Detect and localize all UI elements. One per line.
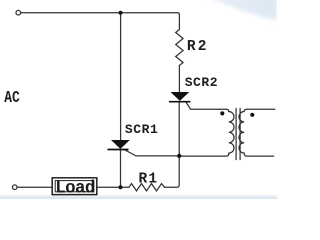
transformer T1 primary winding (left) (179, 112, 234, 157)
thyristor SCR2 cathode bar (169, 101, 191, 103)
wire: SCR1 gate to node B (124, 149, 179, 156)
wire: SCR1 anode drop from node A (120, 13, 122, 141)
thyristor SCR2 anode triangle (171, 92, 190, 101)
svg-text:R1: R1 (139, 172, 159, 188)
wire: bottom terminal to Load (17, 186, 52, 188)
svg-text:Load: Load (55, 179, 95, 199)
svg-text:R2: R2 (187, 39, 209, 55)
svg-text:SCR2: SCR2 (185, 75, 218, 90)
transformer T1 phase dot (primary) (220, 111, 224, 115)
transformer T1 phase dot (secondary) (250, 113, 254, 117)
wire: SCR1 cathode to node C (120, 149, 122, 187)
resistor R2 (176, 30, 183, 66)
wire: SCR2 cathode to node B (178, 102, 180, 156)
thyristor SCR1 cathode bar (108, 149, 129, 151)
wire: R1 right end up to node B (165, 156, 180, 187)
svg-text:SCR1: SCR1 (125, 122, 158, 137)
terminal: AC input top (16, 10, 21, 15)
background blue strip bottom (0, 194, 277, 200)
wire: SCR2 gate to transformer primary top (186, 102, 229, 112)
node B junction dot (SCR2 cathode / SCR1 gate / R1 / primary bottom) (177, 154, 181, 158)
wire: Load to node C (97, 186, 129, 188)
wire: R2 to SCR2 anode (178, 66, 180, 93)
node A junction dot (top rail / SCR1 anode) (119, 11, 123, 15)
thyristor SCR1 anode triangle (111, 140, 130, 149)
terminal: AC input bottom (12, 185, 17, 190)
resistor R1 (129, 184, 165, 191)
svg-text:AC: AC (4, 90, 20, 108)
node C junction dot (Load / R1 / SCR1 cathode) (119, 185, 123, 189)
transformer T1 core (235, 108, 237, 159)
load box (52, 178, 97, 199)
wire: top rail from terminal to R2 (21, 13, 180, 30)
transformer T1 secondary winding (right) (239, 109, 275, 156)
background blue blob top-right (205, 0, 277, 21)
